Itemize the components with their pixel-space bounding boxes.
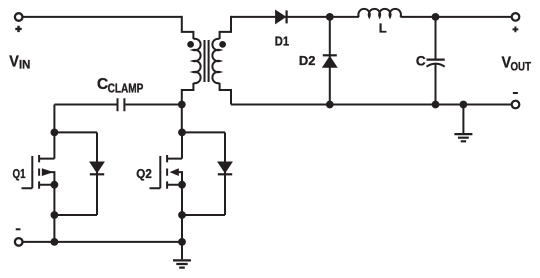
node Q1 cell bottom bbox=[51, 211, 59, 219]
node Q2 cell bottom bbox=[178, 211, 186, 219]
minus sign input bbox=[16, 228, 21, 230]
node junction dots bbox=[51, 13, 468, 246]
wire clamp left vertical bbox=[53, 105, 55, 133]
transformer core bbox=[205, 40, 209, 82]
transformer T1 primary winding bbox=[193, 39, 200, 83]
wire secondary top lead bbox=[220, 16, 231, 39]
inductor L bbox=[358, 9, 401, 17]
node ground rail bbox=[460, 101, 468, 109]
node Q1 top bbox=[51, 129, 59, 137]
wire Q1 diode branch bbox=[96, 132, 98, 215]
wire clamp rail left bbox=[54, 104, 116, 106]
svg-text:L: L bbox=[379, 20, 387, 35]
ground secondary bbox=[454, 105, 472, 142]
wire Q2 drain chain vertical bbox=[181, 105, 183, 133]
wire secondary bottom lead bbox=[220, 83, 231, 105]
node clamp-primary junction bbox=[178, 101, 186, 109]
wire Q2 cell bottom link bbox=[182, 214, 225, 216]
wire Q2 cell top link bbox=[182, 131, 225, 133]
wire clamp rail right bbox=[125, 104, 181, 106]
diode D2 bbox=[323, 55, 337, 67]
capacitor CCLAMP bbox=[118, 98, 125, 111]
transistor Q2 bbox=[150, 132, 183, 242]
svg-text:CLAMP: CLAMP bbox=[108, 80, 144, 95]
label VOUT bbox=[502, 54, 532, 73]
svg-text:D1: D1 bbox=[275, 33, 289, 48]
wire primary top lead bbox=[182, 16, 194, 39]
transformer T1 secondary winding bbox=[212, 39, 219, 83]
plus sign output bbox=[513, 27, 519, 33]
diode D1 bbox=[276, 10, 287, 23]
svg-text:Q2: Q2 bbox=[136, 166, 152, 181]
node D2 anode rail bbox=[326, 101, 334, 109]
transistor Q1 bbox=[22, 132, 55, 242]
ground primary bbox=[173, 242, 191, 268]
wire Q1 cell bottom link bbox=[54, 214, 97, 216]
node Q2 source tie bbox=[178, 181, 186, 189]
node Q2 top bbox=[178, 129, 186, 137]
transistor Q1 arrow bbox=[42, 168, 54, 176]
label VIN bbox=[9, 53, 30, 71]
transformer primary phase dot bbox=[187, 41, 194, 48]
diode Q2 body diode bbox=[218, 162, 232, 174]
wire top rail right bbox=[231, 16, 512, 18]
transistor Q2 arrow bbox=[170, 168, 179, 176]
svg-text:IN: IN bbox=[19, 60, 30, 72]
minus sign output bbox=[513, 92, 518, 94]
terminal input + bbox=[15, 13, 23, 21]
label CCLAMP bbox=[97, 76, 144, 96]
svg-text:Q1: Q1 bbox=[13, 166, 26, 181]
wire Q2 diode branch bbox=[224, 132, 226, 215]
wire bottom rail bbox=[22, 241, 182, 243]
svg-text:C: C bbox=[97, 76, 108, 93]
wire C branch bottom bbox=[435, 64, 437, 104]
wire Q1 cell top link bbox=[54, 131, 97, 133]
wire secondary bottom rail bbox=[231, 104, 512, 106]
node Q2 source rail bbox=[178, 238, 186, 246]
diode Q1 body diode bbox=[90, 162, 104, 174]
node C bottom rail bbox=[432, 101, 440, 109]
node L-C junction bbox=[432, 13, 440, 21]
wire D2 branch bbox=[329, 17, 331, 105]
wire C branch top bbox=[435, 17, 437, 60]
terminal input - bbox=[15, 238, 23, 246]
node Q1 source tie bbox=[51, 181, 59, 189]
wire top rail left bbox=[22, 16, 182, 18]
svg-text:V: V bbox=[9, 53, 19, 70]
terminal output - bbox=[512, 101, 520, 109]
svg-text:C: C bbox=[416, 53, 426, 68]
plus sign input bbox=[15, 26, 21, 32]
svg-text:OUT: OUT bbox=[511, 62, 532, 74]
wire primary bottom lead bbox=[182, 83, 194, 105]
svg-text:D2: D2 bbox=[299, 53, 316, 68]
node Q1 source rail bbox=[51, 238, 59, 246]
terminal output + bbox=[512, 13, 520, 21]
transformer secondary phase dot bbox=[219, 41, 226, 48]
capacitor C bbox=[427, 60, 445, 67]
node D1 cathode bbox=[326, 13, 334, 21]
